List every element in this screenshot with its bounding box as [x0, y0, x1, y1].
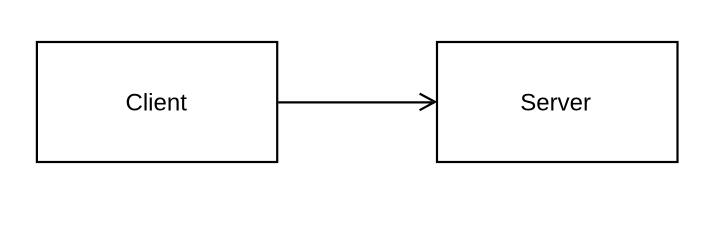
- svg-text:Client: Client: [126, 90, 188, 117]
- svg-text:Server: Server: [520, 90, 591, 117]
